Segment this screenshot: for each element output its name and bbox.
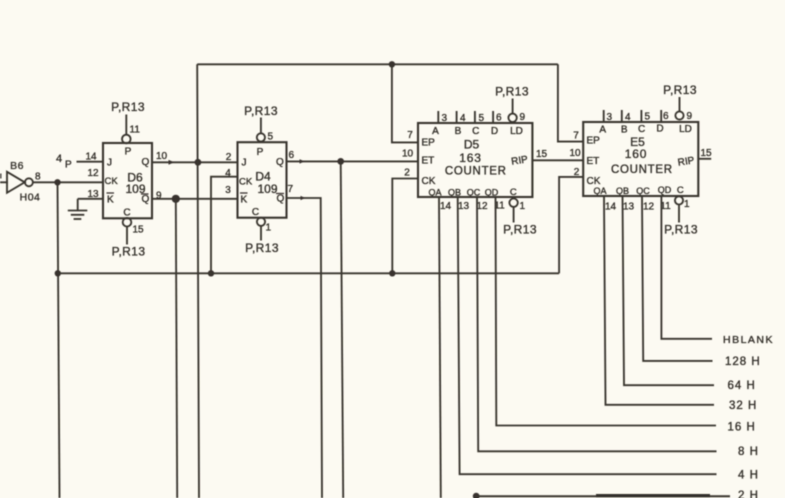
D5 clear bubble pin 1 [509, 199, 517, 207]
svg-text:12: 12 [87, 168, 99, 179]
svg-text:CK: CK [422, 176, 436, 187]
wire: 2H line heavy segment [596, 494, 710, 497]
junction: 2H line start [473, 493, 480, 498]
svg-text:1: 1 [266, 223, 272, 234]
arrow tick on Q wire [169, 160, 175, 165]
svg-text:P,R13: P,R13 [495, 85, 529, 99]
svg-text:B: B [455, 126, 462, 137]
wire: E5 QC pin 12 to 128H [642, 196, 713, 361]
svg-text:5: 5 [645, 112, 651, 123]
svg-text:8: 8 [35, 172, 41, 183]
junction: clock node [54, 179, 60, 185]
svg-text:14: 14 [85, 152, 97, 163]
D6 internal labels [105, 147, 150, 219]
svg-text:CK: CK [105, 176, 119, 187]
svg-text:P: P [257, 147, 264, 158]
svg-text:COUNTER: COUNTER [611, 164, 673, 176]
svg-text:12: 12 [643, 202, 655, 213]
svg-text:2: 2 [404, 168, 410, 179]
flip-flop D4 (109) body [238, 142, 287, 218]
wire: D6 K-bar pin 13 to ground [78, 198, 103, 200]
D6 preset bubble pin 11 [122, 135, 131, 144]
wire: E5 QD pin 11 to HBLANK [661, 196, 712, 339]
D6 K-bar overbar [107, 192, 115, 194]
wire: inverter output to D6 CK pin 12 [33, 181, 103, 183]
junction: Qbar net [172, 195, 180, 203]
wire: D5 QA pin 14 down off page [439, 197, 441, 498]
counter D5 (163) body [418, 123, 532, 197]
svg-text:9: 9 [520, 112, 526, 123]
svg-text:12: 12 [476, 201, 488, 212]
svg-text:9: 9 [687, 111, 693, 122]
svg-text:J: J [242, 158, 247, 169]
svg-text:4: 4 [56, 153, 62, 165]
wire: D5 QD pin 11 to 16H [496, 197, 717, 426]
inverter B6 H04 [7, 172, 33, 193]
svg-text:64 H: 64 H [728, 380, 756, 392]
svg-text:2: 2 [574, 167, 580, 178]
svg-text:LD: LD [510, 126, 523, 137]
svg-text:P: P [125, 147, 132, 158]
wire: E5 QA pin 14 to 32H [604, 196, 714, 405]
svg-text:ET: ET [587, 156, 600, 167]
svg-text:B6: B6 [10, 160, 24, 172]
E5 pins 14 13 12 11 [605, 201, 671, 213]
wire: D4 clear to P,R13 [260, 226, 262, 241]
wire: D4 preset to P,R13 [260, 118, 262, 134]
svg-text:15: 15 [133, 225, 145, 236]
svg-text:J: J [107, 158, 112, 169]
svg-text:10: 10 [156, 151, 168, 162]
junction: D4 CK at clock bus [208, 270, 214, 276]
arrow tick on D4 Qbar wire [301, 196, 306, 200]
svg-text:11: 11 [130, 125, 141, 136]
wire: top line down to E5 EP pin 7 [558, 64, 583, 141]
svg-text:ET: ET [422, 156, 435, 167]
svg-text:P,R13: P,R13 [245, 241, 279, 255]
svg-text:P,R13: P,R13 [664, 223, 698, 237]
svg-text:109: 109 [257, 182, 277, 196]
wire: 4P input to D6 J pin 14 [77, 161, 104, 163]
svg-text:14: 14 [605, 202, 617, 213]
wire: D4 Q net down off page [341, 161, 344, 498]
E5 top input stubs pins 3,4,5,6 [604, 110, 662, 122]
svg-text:A: A [432, 126, 439, 137]
svg-text:16 H: 16 H [728, 422, 756, 434]
svg-text:2 H: 2 H [738, 490, 759, 498]
svg-text:K: K [241, 195, 248, 206]
svg-text:32 H: 32 H [729, 400, 757, 412]
svg-text:COUNTER: COUNTER [445, 166, 507, 178]
D5 internal labels [422, 126, 530, 198]
junction: clock at horizontal bus [55, 270, 61, 276]
E5 clear bubble pin 1 [675, 196, 683, 204]
clipped pin digit at left edge [0, 174, 2, 179]
wire: E5 clear to P,R13 [678, 205, 680, 223]
wire: clock horizontal bus [58, 272, 560, 274]
svg-text:QD: QD [485, 188, 499, 198]
wire: D5 QC pin 12 to 8H [477, 197, 717, 451]
D5 top input stubs pins 3,4,5,6 [438, 111, 493, 123]
svg-text:4: 4 [625, 112, 631, 123]
junction: top line to D5 EP branch [389, 61, 395, 67]
svg-text:7: 7 [288, 184, 294, 195]
wire: D6 clear to P,R13 [126, 226, 128, 245]
D4 preset bubble pin 5 [257, 133, 265, 141]
svg-text:Q: Q [277, 194, 285, 205]
svg-text:QC: QC [636, 186, 650, 196]
wire: D6 Qbar pin 9 to D4 Kbar pin 3 [152, 198, 238, 200]
junction: Q net to vertical [195, 159, 202, 166]
svg-text:QB: QB [448, 188, 461, 198]
svg-text:D: D [656, 124, 663, 135]
svg-text:13: 13 [458, 201, 470, 212]
svg-text:3: 3 [442, 113, 448, 124]
D5 pins 14 13 12 11 [440, 201, 505, 213]
wire: D5 LD to P,R13 [512, 99, 514, 114]
svg-text:B: B [621, 125, 628, 136]
wire: branch down to D5 EP pin 7 [392, 64, 418, 142]
svg-text:CK: CK [239, 177, 253, 188]
wire: D4 Qbar pin 7 down off page [287, 198, 323, 498]
svg-text:H04: H04 [20, 192, 41, 204]
counter E5 (160) body [583, 122, 698, 196]
svg-text:QC: QC [467, 188, 481, 198]
svg-text:D: D [491, 126, 498, 137]
svg-text:13: 13 [87, 189, 99, 200]
svg-text:P,R13: P,R13 [111, 100, 145, 114]
E5 pins 3 4 5 6 [607, 111, 670, 123]
svg-text:P: P [65, 160, 72, 171]
wire: Qbar net vertical down off page [176, 199, 177, 498]
wire: D4 CK pin 4 to clock bus [211, 177, 238, 274]
svg-text:4: 4 [460, 113, 466, 124]
svg-text:C: C [472, 126, 479, 137]
wire: E5 QB pin 13 to 64H [623, 196, 715, 385]
wire: E5 RIP pin 15 stub [698, 158, 711, 160]
svg-text:9: 9 [156, 191, 162, 202]
wire: D6 preset to P,R13 [125, 115, 127, 136]
wire: clock bus up to E5 CK pin 2 [559, 177, 583, 273]
svg-text:C: C [252, 207, 259, 218]
svg-text:QA: QA [593, 186, 606, 196]
svg-text:7: 7 [407, 130, 413, 141]
D4 internal labels [239, 147, 285, 218]
wire: D4 Q pin 6 to D5 ET pin 10 [287, 160, 419, 162]
wire: D5 CK pin 2 to clock bus [392, 179, 418, 274]
svg-text:1: 1 [520, 201, 526, 212]
svg-text:D5: D5 [464, 138, 480, 152]
svg-text:C: C [677, 185, 684, 196]
svg-text:A: A [599, 125, 606, 136]
wire: D5 QB pin 13 to 4H [458, 197, 717, 474]
wire: clock vertical bus down off page [58, 182, 60, 498]
D4 K-bar overbar [240, 192, 248, 194]
svg-text:3: 3 [225, 185, 231, 196]
svg-text:1: 1 [684, 199, 690, 210]
svg-text:2: 2 [226, 152, 232, 163]
svg-text:14: 14 [440, 201, 452, 212]
svg-text:6: 6 [289, 150, 295, 161]
svg-text:P,R13: P,R13 [244, 104, 278, 118]
arrow tick on D4 Q wire [300, 159, 305, 163]
svg-text:128 H: 128 H [725, 356, 761, 368]
svg-text:8 H: 8 H [738, 446, 759, 458]
D6 clear bubble pin 15 [123, 218, 132, 227]
svg-text:160: 160 [625, 147, 647, 161]
D6 Q-bar overbar [141, 193, 149, 195]
svg-text:LD: LD [679, 124, 692, 135]
svg-text:15: 15 [701, 148, 713, 159]
wire: E5 LD to P,R13 [679, 97, 681, 111]
wire: input to inverter B6 [0, 181, 8, 183]
svg-text:QA: QA [428, 188, 441, 198]
svg-text:163: 163 [459, 151, 481, 165]
svg-text:6: 6 [663, 111, 669, 122]
svg-text:5: 5 [268, 132, 274, 143]
svg-text:15: 15 [536, 149, 548, 160]
svg-text:5: 5 [479, 113, 485, 124]
wire: 2H line [476, 495, 730, 497]
svg-text:C: C [510, 187, 517, 198]
D5 LD bubble pin 9 [508, 114, 516, 122]
svg-text:7: 7 [573, 131, 579, 142]
svg-text:3: 3 [607, 112, 613, 123]
E5 LD bubble pin 9 [675, 111, 683, 119]
wire: Q net vertical (top line down off page) [197, 64, 199, 498]
svg-text:EP: EP [587, 136, 601, 147]
svg-text:EP: EP [422, 138, 436, 149]
junction: D5 CK at clock bus [389, 270, 395, 276]
svg-text:P,R13: P,R13 [503, 223, 537, 237]
svg-text:K: K [107, 195, 114, 206]
svg-text:C: C [638, 124, 645, 135]
E5 internal labels [587, 124, 696, 197]
wire: D5 RIP pin 15 to E5 ET pin 10 [532, 159, 583, 161]
D5 pins 3 4 5 6 [442, 113, 503, 125]
svg-text:13: 13 [623, 202, 635, 213]
svg-text:10: 10 [570, 148, 582, 159]
wire: top horizontal line [197, 63, 558, 65]
D4 Q-bar overbar [276, 193, 284, 195]
flip-flop D6 (109) body [103, 143, 152, 218]
svg-text:QD: QD [658, 185, 672, 195]
svg-text:P,R13: P,R13 [663, 83, 697, 97]
svg-text:HBLANK: HBLANK [723, 334, 774, 346]
svg-text:QB: QB [616, 186, 629, 196]
wire: D5 clear to P,R13 [513, 207, 515, 223]
svg-text:C: C [123, 208, 130, 219]
D4 clear bubble pin 1 [257, 218, 265, 226]
svg-text:Q: Q [276, 157, 284, 168]
svg-text:P,R13: P,R13 [112, 245, 146, 259]
svg-text:4 H: 4 H [738, 470, 759, 482]
svg-text:6: 6 [496, 113, 502, 124]
junction: D4 Q net vertical [337, 158, 344, 165]
ground [68, 199, 88, 219]
svg-text:10: 10 [402, 149, 414, 160]
svg-text:Q: Q [142, 157, 150, 168]
wire: D6 Q pin 10 to D4 J pin 2 [152, 161, 238, 163]
